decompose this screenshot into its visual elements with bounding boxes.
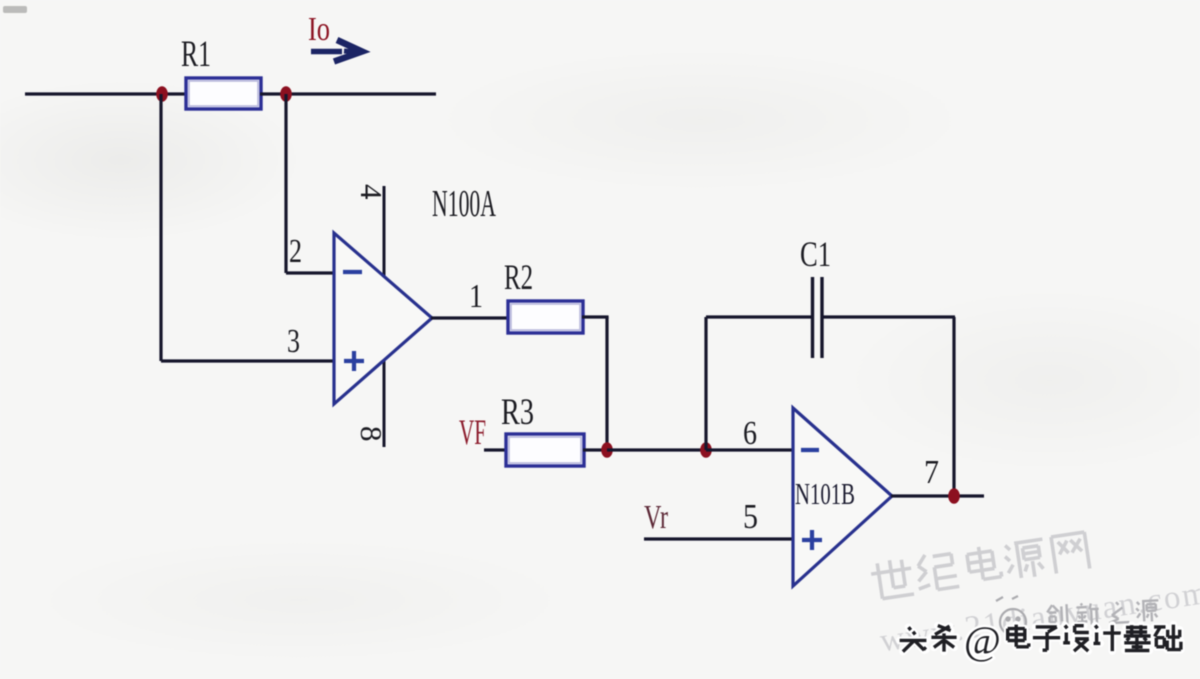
wire: pin 7 output of N101B (891, 494, 984, 497)
wire: R2 to corner (582, 315, 609, 318)
op-amp N101B minus input mark (801, 448, 819, 452)
junction: summing node (R2/R3) (601, 442, 613, 458)
wire: feedback vertical left (704, 317, 707, 450)
op-amp N100A body (334, 233, 432, 404)
svg-text:Io: Io (308, 11, 330, 48)
svg-text:C1: C1 (800, 234, 831, 274)
svg-text:R3: R3 (501, 392, 534, 433)
svg-text:3: 3 (287, 323, 300, 360)
svg-text:8: 8 (354, 426, 389, 442)
arrow: Io current direction (311, 40, 362, 62)
op-amp N100A minus input mark (343, 270, 362, 274)
wire: feedback top, right of C1 (822, 315, 955, 318)
svg-text:1: 1 (469, 278, 483, 315)
watermark text: slogan (1047, 599, 1160, 627)
svg-text:5: 5 (743, 497, 758, 536)
wire: vertical R2 down to summing node (605, 317, 608, 450)
capacitor C1 (813, 277, 823, 358)
wire: node B vertical to pin 2 (284, 94, 287, 273)
logo: smiley circle (996, 596, 1026, 635)
wire: node A vertical to pin 3 (159, 94, 162, 361)
watermark: 21dianyuan logo text (869, 514, 1200, 659)
svg-text:@: @ (964, 618, 1001, 663)
op-amp N101B body (793, 408, 892, 586)
svg-text:R2: R2 (504, 257, 533, 297)
power pin 8 stub (bottom) (383, 340, 386, 447)
svg-text:4: 4 (354, 184, 389, 200)
resistor R1 (186, 78, 261, 109)
junction: output node pin 7 (948, 488, 960, 504)
wire: summing node to feedback node (607, 448, 707, 451)
svg-text:N101B: N101B (795, 476, 855, 511)
wire: VF lead into R3 (484, 448, 508, 451)
svg-text:7: 7 (924, 454, 939, 491)
power pin 4 stub (top) (383, 186, 386, 300)
svg-text:R1: R1 (181, 34, 211, 75)
resistor R2 (508, 301, 583, 333)
wire: feedback vertical right down to output (952, 317, 955, 496)
svg-text:2: 2 (289, 233, 302, 270)
wire: R3 to summing node (583, 448, 608, 451)
wire: input net, left segment (25, 92, 187, 95)
wire: pin 2 horizontal (286, 271, 336, 274)
wire: pin 5 input (Vr) (644, 537, 795, 540)
wire: feedback node to pin 6 (706, 448, 795, 451)
op-amp N100A plus input mark (344, 351, 364, 371)
junction: node right of R1 (280, 86, 292, 102)
svg-text:VF: VF (459, 412, 486, 452)
op-amp N101B plus input mark (802, 530, 822, 550)
svg-text:Vr: Vr (644, 499, 668, 536)
svg-text:6: 6 (743, 415, 757, 452)
junction: node left of R1 (156, 86, 168, 102)
svg-text:N100A: N100A (432, 183, 496, 225)
junction: feedback node (700, 442, 712, 458)
wire: feedback top, left of C1 (706, 315, 812, 318)
resistor R3 (506, 434, 584, 466)
wire: pin 3 horizontal (161, 359, 336, 362)
caption: 头条 @电子设计基础 (900, 618, 1181, 663)
wire: top rail right segment (260, 92, 436, 95)
wire: pin 1 output of N100A (431, 316, 509, 319)
